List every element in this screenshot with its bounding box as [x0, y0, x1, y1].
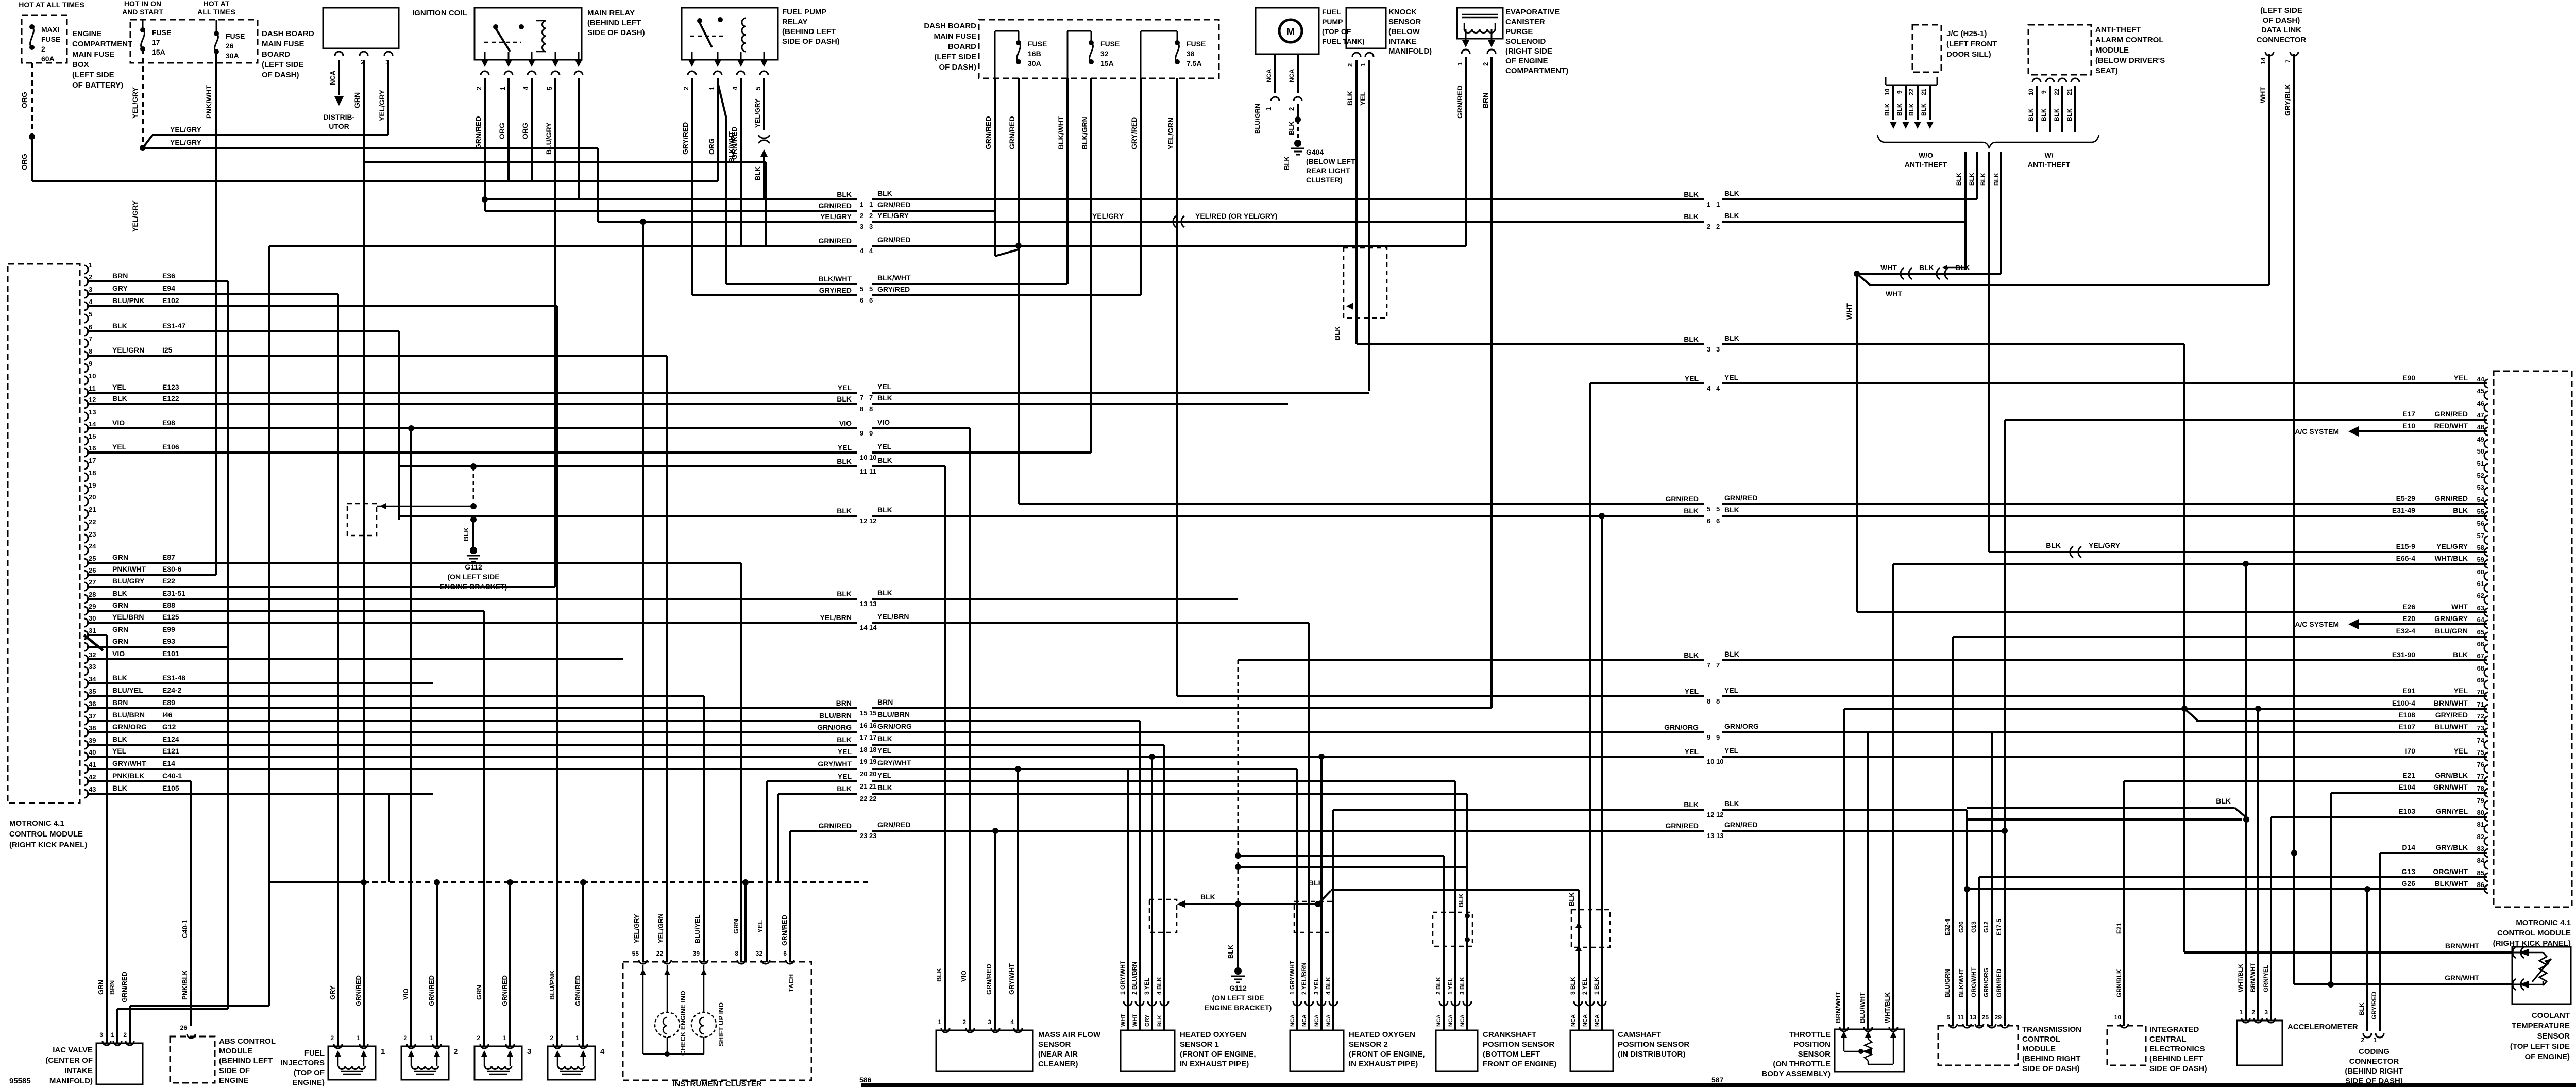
svg-text:30A: 30A — [226, 52, 239, 60]
svg-text:82: 82 — [2477, 833, 2484, 841]
wire PNK/WHT from fuse 26 — [215, 52, 217, 575]
right ECU pin 67 bump — [2484, 656, 2488, 664]
ground G112 left — [470, 547, 477, 554]
svg-text:BLK: BLK — [2053, 108, 2060, 121]
wire YEL to pin70 — [1177, 695, 1704, 697]
left ECU pin 33 bump — [84, 667, 88, 675]
svg-text:ANTI-THEFT: ANTI-THEFT — [1905, 160, 1947, 169]
svg-text:34: 34 — [89, 675, 96, 683]
svg-text:2 BLK: 2 BLK — [1435, 977, 1442, 995]
svg-text:587: 587 — [1711, 1076, 1724, 1084]
svg-text:BLK: BLK — [1955, 263, 1970, 272]
svg-text:NCA: NCA — [1314, 1014, 1320, 1027]
svg-text:ELECTRONICS: ELECTRONICS — [2149, 1045, 2205, 1053]
wire GRY/WHT HO2S2 pin1 — [1296, 769, 1298, 1030]
junction — [408, 425, 414, 431]
wire BLU/GRY main relay pin5 — [554, 78, 556, 587]
svg-text:CODING: CODING — [2359, 1047, 2389, 1056]
svg-text:MODULE: MODULE — [219, 1047, 252, 1056]
IAC valve box — [96, 1043, 143, 1084]
svg-text:1: 1 — [2239, 1009, 2243, 1016]
svg-text:E102: E102 — [162, 296, 179, 305]
svg-text:WHT/BLK: WHT/BLK — [2237, 963, 2244, 992]
svg-text:NCA: NCA — [1448, 1014, 1454, 1027]
svg-text:CLEANER): CLEANER) — [1038, 1060, 1078, 1068]
junction — [2243, 561, 2249, 567]
wire BLU/GRN right pin 65 (E32-4) — [1953, 636, 2487, 638]
svg-text:GRN/RED: GRN/RED — [2434, 410, 2468, 418]
svg-text:GRN/ORG: GRN/ORG — [817, 723, 852, 731]
svg-text:FRONT OF ENGINE): FRONT OF ENGINE) — [1483, 1060, 1556, 1068]
svg-text:BLK: BLK — [1724, 189, 1739, 197]
inline connector (dashed) knock — [1344, 248, 1387, 318]
svg-text:MANIFOLD): MANIFOLD) — [49, 1077, 93, 1085]
wire BLK 2 — [1976, 152, 1978, 199]
svg-text:REAR LIGHT: REAR LIGHT — [1306, 166, 1350, 175]
svg-text:GRN/ORG: GRN/ORG — [1724, 722, 1759, 730]
right ECU pin 53 bump — [2484, 488, 2488, 496]
wire bus 19 YEL pin75 — [87, 756, 857, 758]
svg-text:9: 9 — [860, 429, 863, 437]
wire GRN left pin 31a (E93) — [87, 646, 228, 648]
svg-text:79: 79 — [2477, 797, 2484, 805]
evap solenoid core lines — [1462, 14, 1498, 15]
svg-text:YEL/GRY: YEL/GRY — [820, 212, 852, 221]
svg-text:1: 1 — [502, 1034, 506, 1042]
svg-text:E124: E124 — [162, 735, 179, 743]
svg-text:BLU/WHT: BLU/WHT — [2434, 723, 2468, 731]
svg-text:4: 4 — [731, 86, 739, 90]
svg-text:YEL: YEL — [2454, 687, 2468, 695]
svg-text:E122: E122 — [162, 394, 179, 403]
svg-text:(NEAR AIR: (NEAR AIR — [1038, 1050, 1078, 1059]
arrow into knock connector — [1346, 303, 1353, 310]
svg-text:2: 2 — [550, 1034, 553, 1042]
svg-text:46: 46 — [2477, 399, 2484, 407]
svg-text:BLK: BLK — [1684, 507, 1699, 515]
svg-text:14: 14 — [2260, 57, 2267, 64]
svg-text:BLK: BLK — [1993, 173, 2000, 186]
junction — [2181, 706, 2188, 712]
svg-text:FUSE: FUSE — [1100, 40, 1120, 48]
svg-text:60A: 60A — [41, 55, 55, 63]
right ECU pin 51 bump — [2484, 464, 2488, 472]
right ECU pin 59 bump — [2484, 560, 2488, 568]
svg-text:WHT: WHT — [1880, 263, 1897, 272]
svg-text:GRN/RED: GRN/RED — [877, 200, 911, 209]
wire GRN/YEL accel pin3 — [2270, 817, 2272, 1021]
svg-text:FUEL PUMP: FUEL PUMP — [782, 8, 826, 16]
svg-text:70: 70 — [2477, 688, 2484, 696]
wire ORG fp relay pin1 — [717, 78, 719, 181]
ICE pin bump — [2120, 1024, 2128, 1028]
wire BLK pin43 drop — [388, 794, 390, 882]
wire BLK MAF pin1 — [944, 466, 946, 1030]
svg-text:E36: E36 — [162, 272, 175, 280]
wire ORG main relay pin1 — [507, 78, 510, 181]
wire GRN/RED trunk injector3 — [509, 882, 511, 1046]
svg-text:66: 66 — [2477, 640, 2484, 648]
svg-text:COMPARTMENT: COMPARTMENT — [72, 40, 132, 48]
svg-text:2 YEL/BRN: 2 YEL/BRN — [1300, 963, 1308, 995]
svg-text:BLK: BLK — [837, 507, 852, 515]
right ECU pin 55 bump — [2484, 512, 2488, 520]
wire bus 11 BLK G112 — [399, 465, 857, 467]
svg-text:GRN/RED: GRN/RED — [574, 975, 582, 1006]
svg-text:2: 2 — [682, 87, 690, 90]
junction — [2255, 706, 2261, 712]
junction bus1 — [482, 196, 488, 203]
svg-text:3 YEL: 3 YEL — [1313, 978, 1320, 995]
svg-text:18: 18 — [860, 746, 867, 754]
dash board main fuse board box 1 (dashed) — [130, 20, 258, 63]
junction dots crank connector — [1465, 913, 1470, 918]
svg-text:4: 4 — [860, 247, 864, 255]
svg-text:BLK: BLK — [2453, 506, 2468, 514]
injector 2 pin bumps — [407, 1044, 415, 1048]
interrupt — [2513, 979, 2524, 990]
svg-text:11: 11 — [1957, 1014, 1964, 1021]
svg-text:2: 2 — [475, 87, 483, 90]
svg-text:BLK: BLK — [462, 527, 470, 541]
svg-text:MOTRONIC 4.1: MOTRONIC 4.1 — [9, 819, 64, 828]
instrument cluster box (dashed) — [623, 962, 811, 1080]
svg-text:SENSOR: SENSOR — [2537, 1032, 2570, 1041]
svg-text:(LEFT SIDE: (LEFT SIDE — [2260, 6, 2302, 15]
injector 1 coil symbol — [338, 1066, 365, 1069]
svg-text:1: 1 — [938, 1018, 941, 1026]
svg-text:31: 31 — [89, 627, 96, 634]
main relay internal contact — [493, 24, 498, 29]
inline connector (dashed) near G112 — [347, 504, 377, 536]
TCM pin bumps — [1949, 1024, 1957, 1028]
left ECU pin 19 bump — [84, 486, 88, 494]
svg-text:CRANKSHAFT: CRANKSHAFT — [1483, 1030, 1536, 1039]
svg-text:10: 10 — [2114, 1014, 2122, 1021]
wire YEL/GRY riser to bus — [597, 148, 599, 222]
svg-text:VIO: VIO — [112, 419, 125, 427]
svg-text:8: 8 — [869, 405, 873, 413]
wire GRN left pin 25 (E87) — [87, 562, 741, 564]
wire bus 21 YEL — [767, 780, 857, 782]
svg-text:BLK: BLK — [1200, 893, 1215, 901]
svg-text:E103: E103 — [2398, 807, 2415, 815]
svg-text:4: 4 — [869, 247, 873, 255]
svg-text:3: 3 — [89, 286, 92, 293]
injector 3 coil symbol — [485, 1066, 512, 1069]
svg-text:8: 8 — [89, 347, 92, 355]
svg-text:15: 15 — [869, 709, 876, 717]
svg-text:D14: D14 — [2402, 843, 2415, 851]
svg-text:10: 10 — [2027, 88, 2035, 95]
svg-text:NCA: NCA — [1570, 1014, 1577, 1027]
svg-text:21: 21 — [1920, 88, 1927, 95]
MAF pin bumps — [941, 1028, 950, 1032]
svg-text:(BELOW LEFT: (BELOW LEFT — [1306, 157, 1355, 165]
junction ORG — [29, 133, 35, 140]
left ECU pin 5 bump — [84, 314, 88, 323]
svg-text:IAC VALVE: IAC VALVE — [53, 1046, 93, 1055]
svg-text:7: 7 — [1707, 661, 1710, 669]
svg-text:E89: E89 — [162, 698, 175, 707]
svg-text:32: 32 — [89, 651, 96, 659]
svg-text:1: 1 — [575, 1034, 579, 1042]
svg-text:11: 11 — [869, 467, 876, 475]
svg-text:E104: E104 — [2398, 783, 2415, 791]
svg-text:ORG/WHT: ORG/WHT — [2433, 867, 2468, 876]
wire bus 13 BLK — [87, 598, 857, 600]
wire bus 12 BLK to pin55 — [399, 515, 857, 517]
left ECU pin 12 bump — [84, 400, 88, 408]
svg-text:NCA: NCA — [1436, 1014, 1442, 1027]
svg-text:GRN/RED: GRN/RED — [985, 964, 993, 995]
svg-text:SENSOR: SENSOR — [1388, 18, 1421, 26]
svg-text:62: 62 — [2477, 592, 2484, 599]
svg-text:(LEFT SIDE: (LEFT SIDE — [72, 71, 114, 79]
svg-text:ABS CONTROL: ABS CONTROL — [219, 1037, 276, 1046]
svg-text:MAIN RELAY: MAIN RELAY — [587, 9, 635, 18]
svg-text:E121: E121 — [162, 747, 179, 755]
svg-text:BLK: BLK — [1684, 335, 1699, 343]
junction — [1235, 852, 1241, 859]
svg-text:GRY/RED: GRY/RED — [2370, 991, 2378, 1019]
svg-text:2: 2 — [123, 1031, 127, 1039]
left ECU pin 30 bump — [84, 618, 88, 627]
svg-text:29: 29 — [1995, 1014, 2002, 1021]
svg-text:20: 20 — [89, 493, 96, 501]
svg-text:E101: E101 — [162, 649, 179, 658]
svg-text:RED/WHT: RED/WHT — [2434, 422, 2468, 430]
svg-text:G26: G26 — [2402, 879, 2416, 888]
fuel pump relay pin arrows and bumps — [691, 52, 693, 60]
wire GRY/WHT MAF pin4 — [1017, 769, 1019, 1030]
Motronic 4.1 control module connector left (dashed) — [8, 264, 80, 803]
main relay box — [474, 8, 582, 60]
right ECU pin 45 bump — [2484, 391, 2488, 399]
wire bus 4 GRN/RED — [269, 245, 857, 247]
wire GRN/RED trunk injector2 — [436, 882, 438, 1046]
wire BLK HO2S2 net — [1333, 809, 1704, 811]
left ECU pin 10 bump — [84, 376, 88, 384]
wire BRN/WHT TPS pin1 — [1843, 709, 1845, 1029]
svg-text:E17-5: E17-5 — [1995, 919, 2003, 935]
wire GRN/ORG TCM pin25 — [1991, 732, 1993, 1026]
svg-text:BLK: BLK — [1283, 156, 1291, 170]
svg-text:BLK: BLK — [877, 506, 892, 514]
wire GRN/RED riser lower — [268, 882, 270, 1006]
ignition coil box — [323, 8, 399, 48]
svg-text:65: 65 — [2477, 628, 2484, 636]
svg-text:13: 13 — [860, 600, 867, 608]
right ECU pin 50 bump — [2484, 451, 2488, 460]
wire GRY/WHT left pin 41 (E14) — [87, 768, 433, 770]
fuel injector 4 box — [548, 1046, 595, 1080]
svg-text:BLK: BLK — [877, 456, 892, 464]
right ECU pin 73 bump — [2484, 728, 2488, 737]
svg-text:ORG: ORG — [707, 138, 716, 155]
svg-text:E31-48: E31-48 — [162, 674, 185, 682]
wire bus 2 GRN/RED — [485, 210, 857, 212]
svg-text:18: 18 — [89, 469, 96, 477]
inline connector dashed crank — [1433, 912, 1472, 946]
svg-text:GRY/RED: GRY/RED — [2435, 711, 2468, 719]
svg-text:32: 32 — [1100, 49, 1109, 58]
svg-text:6: 6 — [860, 296, 863, 304]
junction — [640, 219, 646, 225]
coding connector pin bumps — [2363, 1033, 2371, 1038]
svg-text:YEL: YEL — [877, 442, 892, 450]
svg-text:GRN/RED: GRN/RED — [428, 975, 435, 1006]
svg-text:8: 8 — [1716, 697, 1720, 705]
svg-text:(RIGHT SIDE: (RIGHT SIDE — [1505, 47, 1552, 56]
svg-text:NCA: NCA — [1301, 1014, 1308, 1027]
wire WHT diagonal — [1857, 274, 1870, 285]
svg-text:5: 5 — [869, 285, 873, 293]
svg-text:13: 13 — [869, 600, 876, 608]
left ECU pin 36 bump — [84, 704, 88, 712]
wire bus 20 GRY/WHT — [87, 768, 857, 770]
wire YEL-GRY from fuse 17 (dashed) — [142, 49, 144, 148]
svg-text:72: 72 — [2477, 712, 2484, 720]
svg-text:BLK: BLK — [1157, 1015, 1163, 1027]
left ECU pin 28 bump — [84, 595, 88, 603]
svg-text:YEL: YEL — [838, 772, 852, 780]
svg-text:G404: G404 — [1306, 148, 1324, 156]
wire YEL knock sensor pin1 — [1368, 60, 1370, 391]
wire BLK crank pin3 — [1466, 794, 1468, 1030]
wire BLK dashed to ground — [1297, 120, 1299, 140]
svg-text:SIDE OF DASH): SIDE OF DASH) — [2149, 1064, 2207, 1073]
svg-text:9: 9 — [89, 360, 92, 367]
wire YEL/GRY cluster pin55 — [642, 222, 644, 962]
svg-text:8: 8 — [860, 405, 863, 413]
svg-text:G26: G26 — [1958, 921, 1965, 933]
svg-text:BRN/WHT: BRN/WHT — [2445, 942, 2480, 950]
junction — [1015, 766, 1021, 772]
svg-text:ENGINE BRACKET): ENGINE BRACKET) — [440, 582, 507, 591]
svg-text:GRN: GRN — [112, 637, 128, 645]
svg-text:G13: G13 — [2402, 867, 2416, 876]
fuse 38 7.5A — [1141, 30, 1177, 32]
svg-text:NCA: NCA — [1594, 1014, 1600, 1027]
svg-text:(LEFT SIDE: (LEFT SIDE — [262, 60, 304, 69]
svg-text:HOT AT: HOT AT — [204, 0, 230, 8]
svg-text:(TOP LEFT SIDE: (TOP LEFT SIDE — [2510, 1042, 2570, 1051]
svg-text:BLK: BLK — [2453, 650, 2468, 659]
svg-text:GRN/RED: GRN/RED — [818, 237, 852, 245]
wire BLK upper level — [1331, 889, 1579, 891]
svg-text:4 BLK: 4 BLK — [1156, 977, 1163, 995]
right ECU pin 71 bump — [2484, 705, 2488, 713]
svg-text:VIO: VIO — [960, 971, 968, 982]
wire BLK riser G112 left — [398, 331, 400, 520]
svg-text:GRY: GRY — [329, 985, 336, 1000]
left ECU pin 6 bump — [84, 327, 88, 336]
svg-text:2: 2 — [1287, 107, 1295, 111]
wire bus 17 GRN/ORG — [87, 731, 857, 733]
svg-text:GRY/RED: GRY/RED — [681, 122, 689, 155]
svg-text:17: 17 — [152, 38, 160, 46]
svg-text:55: 55 — [632, 950, 639, 957]
junction — [1599, 513, 1605, 519]
left ECU pin 11 bump — [84, 389, 88, 397]
wire BLK left pin 43 (E105) — [87, 793, 433, 795]
inline connector dashed near HO2S2 — [1294, 901, 1333, 932]
left ECU pin 17 bump — [84, 461, 88, 469]
fuse 32 15A — [1067, 30, 1091, 32]
svg-text:(BEHIND RIGHT: (BEHIND RIGHT — [2345, 1067, 2403, 1076]
svg-text:3: 3 — [2264, 1009, 2268, 1016]
svg-text:YEL: YEL — [2454, 374, 2468, 382]
svg-text:MAIN FUSE: MAIN FUSE — [72, 50, 115, 59]
svg-text:4: 4 — [89, 298, 93, 306]
svg-text:WHT/BLK: WHT/BLK — [1884, 992, 1891, 1023]
svg-text:BLU/PNK: BLU/PNK — [112, 296, 144, 305]
svg-text:12: 12 — [860, 517, 867, 525]
svg-text:(LEFT FRONT: (LEFT FRONT — [1946, 40, 1997, 48]
wire bus 18 BLK — [87, 744, 857, 746]
wire BLK cam pin1 — [1601, 516, 1603, 1030]
svg-text:WHT: WHT — [2259, 87, 2267, 103]
wire BLU/YEL left pin 35 (E24-2) — [87, 695, 704, 697]
wire ORG trunk to relays — [32, 180, 718, 182]
wire BRN trunk to IAC — [227, 281, 229, 1009]
junction — [1964, 886, 1970, 892]
svg-text:E93: E93 — [162, 637, 175, 645]
svg-text:E5-29: E5-29 — [2396, 494, 2416, 503]
svg-text:YEL: YEL — [1685, 687, 1699, 695]
svg-text:(ON LEFT SIDE: (ON LEFT SIDE — [1212, 994, 1264, 1002]
left ECU pin 3 bump — [84, 290, 88, 298]
svg-text:BLK: BLK — [1724, 506, 1739, 514]
svg-text:E24-2: E24-2 — [162, 686, 182, 694]
wire WHT/BLK accel pin1 — [2245, 564, 2247, 1021]
wire GRN IAC pin3 — [106, 635, 108, 1043]
main relay pin bumps — [481, 71, 489, 75]
svg-text:3 BLK: 3 BLK — [1459, 977, 1466, 995]
wire WHT-BLK jumper — [1857, 273, 2001, 275]
svg-text:GRN/ORG: GRN/ORG — [1664, 723, 1699, 731]
svg-text:9: 9 — [1896, 90, 1903, 94]
svg-text:GRN/BLK: GRN/BLK — [2435, 771, 2468, 779]
svg-text:CANISTER: CANISTER — [1505, 18, 1545, 26]
junction — [1149, 754, 1155, 760]
svg-text:15: 15 — [89, 432, 96, 440]
TPS internal arrows — [1843, 1032, 1845, 1039]
anti-theft alarm control module box (dashed) — [2028, 25, 2091, 75]
wire YEL HO2S1 pin3 — [1151, 757, 1153, 1030]
right ECU pin 69 bump — [2484, 680, 2488, 689]
heated oxygen sensor 1 box — [1121, 1030, 1175, 1071]
svg-text:POSITION SENSOR: POSITION SENSOR — [1618, 1040, 1689, 1049]
evap purge solenoid box — [1457, 8, 1503, 39]
svg-text:GRN/RED: GRN/RED — [354, 975, 362, 1006]
wire BLK left pin 12 (E122) — [87, 403, 433, 405]
svg-text:78: 78 — [2477, 784, 2484, 792]
svg-text:BLK/WHT: BLK/WHT — [818, 275, 852, 283]
svg-text:SIDE OF DASH): SIDE OF DASH) — [587, 28, 645, 37]
svg-text:26: 26 — [180, 1024, 188, 1031]
wire BLU/GRY left pin 27 (E22) — [87, 586, 555, 588]
svg-text:36: 36 — [89, 700, 96, 708]
wire VIO MAF pin2 — [969, 428, 971, 1030]
wire dashed stub to bus2 — [484, 199, 486, 211]
left ECU pin 16 bump — [84, 448, 88, 457]
svg-text:6: 6 — [869, 296, 873, 304]
svg-text:37: 37 — [89, 712, 96, 720]
wire bus 7 YEL knock — [87, 392, 857, 394]
svg-text:E87: E87 — [162, 553, 175, 561]
